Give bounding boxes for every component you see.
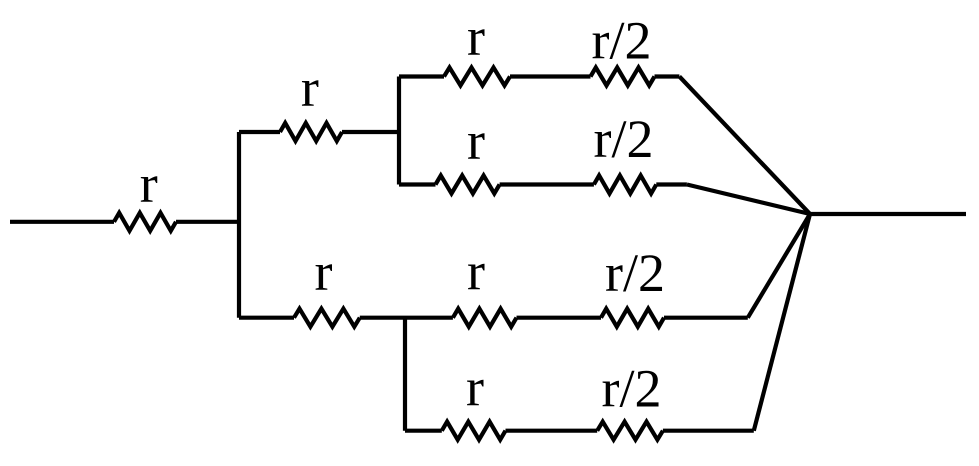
wire R4 to bend branch A (655, 74, 680, 78)
wire diagonal branch A to node N (679, 77, 810, 215)
wire J3 to R10 branch D (405, 429, 442, 433)
wire diagonal branch D to node N (754, 214, 810, 431)
node J3 vertical wire (403, 318, 407, 431)
wire R6 to bend branch B (656, 182, 687, 186)
resistor R2 (280, 123, 342, 141)
wire R2 to node J2 (342, 130, 399, 134)
wire R7 to node J3 (360, 316, 405, 320)
svg-text:r/2: r/2 (605, 243, 665, 303)
svg-text:r: r (467, 7, 485, 67)
resistor R10 (442, 422, 506, 440)
wire R9 to bend branch C (664, 316, 748, 320)
wire J2 to R3 branch A (399, 74, 444, 78)
svg-text:r: r (466, 358, 484, 418)
svg-text:r/2: r/2 (594, 109, 654, 169)
resistor R7 (294, 309, 360, 327)
wire J2 to R5 branch B (399, 182, 436, 186)
wire diagonal branch C to node N (748, 214, 810, 318)
resistor R1 (114, 213, 176, 231)
svg-text:r: r (467, 111, 485, 171)
wire R10 to R11 (506, 429, 598, 433)
svg-text:r: r (315, 242, 333, 302)
wire J1 to R2 (239, 130, 280, 134)
svg-text:r/2: r/2 (592, 11, 652, 71)
svg-text:r: r (467, 242, 485, 302)
resistor R11 (597, 422, 663, 440)
wire R11 to bend branch D (663, 429, 754, 433)
wire output right (810, 212, 966, 216)
wire diagonal branch B to node N (687, 185, 810, 215)
wire R8 to R9 (517, 316, 602, 320)
resistor R4 (591, 68, 655, 86)
svg-text:r: r (301, 58, 319, 118)
resistor R5 (436, 176, 500, 194)
resistor R9 (601, 309, 664, 327)
resistor R6 (594, 176, 656, 194)
wire J3 to R8 branch C (405, 316, 453, 320)
wire R1 to node J1 (176, 220, 239, 224)
node J1 vertical wire (237, 132, 241, 318)
svg-text:r/2: r/2 (602, 359, 662, 419)
resistor R8 (453, 309, 517, 327)
node J2 vertical wire (397, 77, 401, 185)
wire R5 to R6 (500, 182, 594, 186)
svg-text:r: r (140, 154, 158, 214)
wire R3 to R4 (510, 74, 591, 78)
wire J1 to R7 bottom (239, 316, 294, 320)
resistor R3 (444, 68, 510, 86)
wire input left (10, 220, 114, 224)
